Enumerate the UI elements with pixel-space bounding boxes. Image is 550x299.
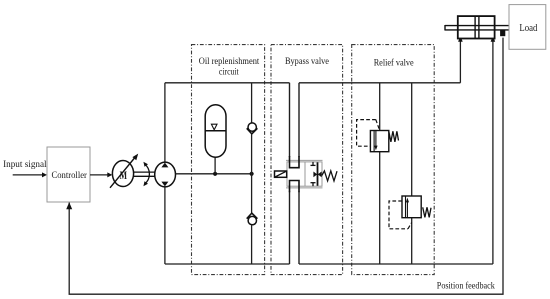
accumulator A1 — [205, 105, 226, 158]
svg-text:Position feedback: Position feedback — [437, 281, 495, 292]
node: check valve line junction — [250, 172, 254, 176]
wire: relief line 2 lower — [411, 218, 413, 264]
svg-text:Input signal: Input signal — [3, 159, 47, 169]
relief valve RV2 (lower) — [402, 196, 431, 218]
label: Position feedback — [437, 281, 495, 292]
wire: left edge above pump — [164, 83, 166, 162]
shaft coupling (double line) — [133, 172, 154, 176]
node: accumulator junction — [213, 172, 217, 176]
wire: relief line 1 lower — [379, 152, 381, 264]
motor U1 (variable speed electric motor M) — [110, 154, 138, 188]
relief valve RV1 pilot line (dashed) — [357, 120, 380, 147]
wire: position feedback path — [66, 38, 503, 295]
wire: circuit bottom edge (left of bypass stub) — [165, 263, 290, 265]
check valve CV1 (upper) — [247, 123, 258, 134]
svg-text:Load: Load — [519, 23, 537, 34]
dashed box: oil replenishment circuit — [192, 45, 265, 275]
svg-text:Controller: Controller — [51, 170, 87, 180]
wire: pump outlet mid-line — [176, 173, 252, 175]
svg-text:Relief valve: Relief valve — [374, 57, 414, 68]
bypass valve closed-position port stubs — [290, 156, 300, 192]
label: Bypass valve — [285, 56, 329, 66]
wire: cylinder left port — [458, 36, 463, 83]
pump P1 (bidirectional) — [155, 162, 176, 187]
load box — [509, 5, 546, 50]
check valve CV2 (lower) — [247, 213, 258, 225]
svg-text:circuit: circuit — [219, 68, 239, 78]
rotation arrows on shaft — [143, 162, 149, 187]
svg-text:Bypass valve: Bypass valve — [285, 56, 329, 66]
bypass valve spring — [322, 171, 337, 181]
wire: check valve line upper — [251, 83, 253, 123]
bypass valve V1 body (proportional, gray) — [286, 160, 323, 188]
wire: input signal arrow — [13, 172, 47, 177]
wire: check valve line middle — [251, 134, 253, 213]
wire: check valve line lower — [251, 225, 253, 264]
dashed box: bypass valve — [271, 45, 343, 275]
wire: circuit top edge (right of bypass stub) — [299, 82, 460, 84]
wire: bypass bottom port lines — [290, 191, 300, 264]
bypass valve solenoid — [275, 171, 287, 177]
label: Oil replenishment circuit — [199, 57, 260, 78]
cylinder (double rod) — [445, 16, 509, 38]
wire: relief line 1 upper — [379, 83, 381, 131]
wire: relief line 2 upper — [411, 83, 413, 196]
wire: cylinder right port — [491, 36, 496, 264]
bypass valve blocked ports (T symbols) — [311, 162, 316, 186]
wire: circuit bottom edge (right of bypass stub) — [299, 263, 493, 265]
wire: circuit top edge (left of bypass stub) — [165, 82, 290, 84]
dashed box: relief valve — [352, 45, 435, 275]
relief valve RV1 (upper) — [370, 131, 398, 152]
position sensor tap (filled square) — [500, 30, 505, 36]
label: Input signal — [3, 159, 47, 169]
wire: controller to motor arrow — [90, 172, 112, 177]
wire: left edge below pump — [164, 187, 166, 264]
label: Relief valve — [374, 57, 414, 68]
svg-text:Oil replenishment: Oil replenishment — [199, 57, 260, 67]
wire: bypass top port lines — [290, 83, 300, 157]
bypass valve metering notch (bowtie on bar) — [313, 162, 321, 186]
controller box — [47, 147, 90, 202]
relief valve RV2 pilot line (dashed) — [389, 201, 412, 229]
wire: accumulator drop line — [214, 157, 216, 174]
